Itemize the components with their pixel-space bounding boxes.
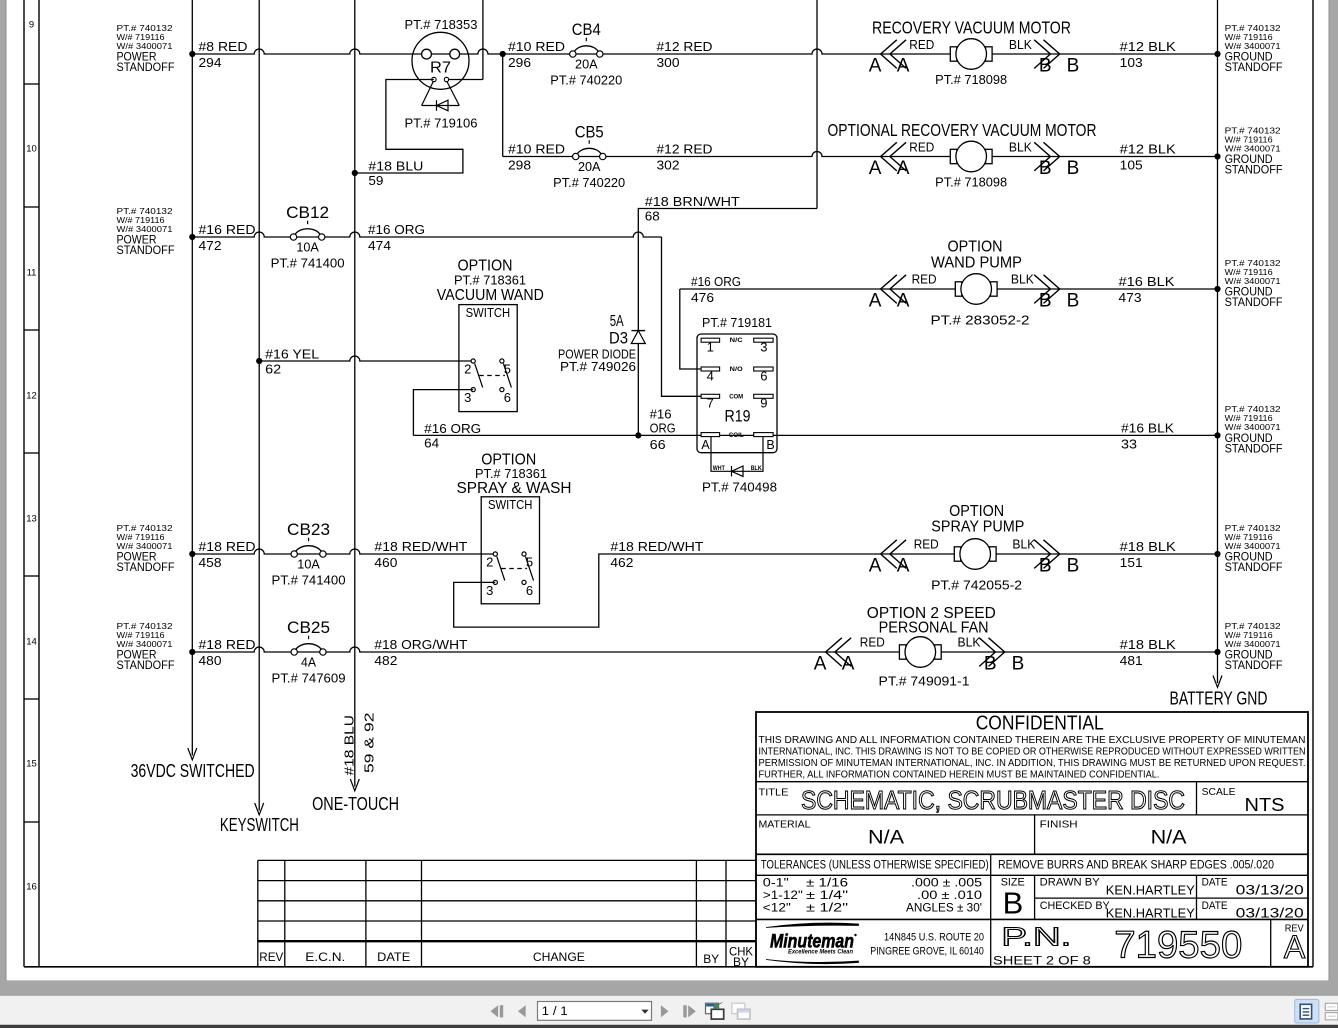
svg-text:N/A: N/A — [868, 828, 904, 849]
connector A-A personal fan — [814, 638, 855, 675]
svg-text:OPTION: OPTION — [949, 503, 1004, 520]
label: #12 BLK 105 — [1120, 142, 1176, 173]
junction: bus1 row13 — [189, 551, 195, 557]
svg-text:PT.# 740498: PT.# 740498 — [702, 481, 777, 495]
wire: keyswitch bus (vertical) — [255, 0, 264, 815]
junction: keyswitch bus / #16 YEL — [256, 358, 262, 364]
svg-text:BY: BY — [733, 955, 749, 969]
svg-text:STANDOFF: STANDOFF — [117, 243, 175, 257]
svg-text:± 1/16: ± 1/16 — [806, 878, 848, 890]
svg-text:#16 ORG: #16 ORG — [691, 274, 741, 289]
junction: D3 / row12 — [635, 432, 641, 438]
connector R7 PT.# 718353 — [405, 18, 478, 89]
node: 36VDC SWITCHED — [131, 760, 255, 781]
svg-text:473: 473 — [1119, 290, 1142, 305]
svg-text:BY: BY — [703, 952, 719, 966]
wire: #18 BRN/WHT feed (vertical at x=817) — [816, 0, 818, 209]
wire: one-touch bus (vertical) — [350, 0, 359, 791]
label: BLK — [1012, 538, 1036, 552]
svg-text:1: 1 — [707, 340, 714, 355]
ground standoff label row12 — [1225, 405, 1283, 455]
label: #12 RED 302 — [657, 142, 713, 173]
label: RED — [909, 140, 934, 154]
svg-text:W/# 719116: W/# 719116 — [1225, 533, 1274, 542]
label: #16 ORG 66 (stacked) — [650, 407, 676, 452]
svg-text:RED: RED — [914, 538, 939, 552]
svg-text:D3: D3 — [609, 330, 628, 348]
svg-text:PT.# 741400: PT.# 741400 — [271, 257, 345, 271]
label: #16 RED 472 — [199, 222, 256, 253]
svg-text:B: B — [1067, 158, 1080, 179]
connector A-A spray pump — [869, 540, 910, 577]
svg-text:STANDOFF: STANDOFF — [1225, 560, 1283, 574]
wire: #18 BRN/WHT 68 — [638, 209, 817, 331]
svg-text:PT.# 719106: PT.# 719106 — [405, 117, 478, 131]
svg-text:BATTERY GND: BATTERY GND — [1170, 688, 1268, 709]
svg-text:CB4: CB4 — [572, 21, 601, 39]
svg-text:MATERIAL: MATERIAL — [759, 819, 811, 831]
svg-text:KEN.HARTLEY: KEN.HARTLEY — [1106, 906, 1195, 921]
svg-text:COM: COM — [729, 393, 743, 400]
svg-text:68: 68 — [645, 209, 660, 224]
svg-text:P.N.: P.N. — [1001, 922, 1071, 952]
svg-text:#16 ORG: #16 ORG — [424, 421, 481, 436]
svg-text:6: 6 — [760, 368, 767, 383]
label: SIZE B — [1001, 877, 1025, 921]
svg-text:NTS: NTS — [1245, 795, 1285, 815]
svg-text:± 1/4": ± 1/4" — [806, 890, 848, 902]
label: MATERIAL / FINISH — [759, 819, 1187, 849]
junction: row9 / row10 feed — [500, 51, 506, 57]
wire: row13 #18 RED to switch pin2 — [192, 549, 495, 554]
svg-text:105: 105 — [1120, 158, 1143, 173]
svg-text:458: 458 — [199, 555, 222, 570]
svg-text:3: 3 — [760, 340, 767, 355]
svg-text:ORG: ORG — [650, 420, 676, 435]
svg-text:4: 4 — [707, 368, 714, 383]
svg-text:W/# 719116: W/# 719116 — [117, 533, 166, 542]
svg-text:PT.# 742055-2: PT.# 742055-2 — [931, 579, 1022, 593]
svg-text:N/O: N/O — [730, 366, 743, 373]
svg-text:OPTION: OPTION — [948, 239, 1003, 256]
svg-text:64: 64 — [424, 436, 439, 451]
svg-text:6: 6 — [504, 390, 511, 405]
svg-text:10A: 10A — [297, 557, 320, 572]
svg-text:#18 BLK: #18 BLK — [1120, 539, 1176, 554]
svg-text:W/# 719116: W/# 719116 — [117, 631, 166, 640]
svg-text:5: 5 — [526, 555, 533, 570]
svg-text:302: 302 — [657, 158, 680, 173]
svg-text:PT.# 747609: PT.# 747609 — [272, 672, 346, 686]
svg-text:3: 3 — [486, 583, 493, 598]
svg-text:20A: 20A — [578, 159, 601, 174]
connector B-B row10 — [1034, 142, 1079, 179]
svg-text:151: 151 — [1120, 555, 1143, 570]
label: RED — [912, 273, 937, 287]
svg-text:SCALE: SCALE — [1202, 786, 1236, 798]
svg-text:CHANGE: CHANGE — [533, 950, 585, 964]
svg-text:CB5: CB5 — [575, 124, 604, 142]
label: #10 RED 296 — [508, 39, 565, 70]
svg-text:14: 14 — [26, 637, 37, 648]
wire: spray switch pin3 detour to #18 RED/WHT 462 — [454, 554, 1218, 627]
svg-text:6: 6 — [526, 583, 533, 598]
svg-text:B: B — [1039, 290, 1052, 311]
label: OPTION PT.# 718361 VACUUM WAND — [437, 258, 544, 305]
power standoff label row13 left — [117, 524, 175, 574]
wire: #18 BLU 59 (R7 to one-touch bus) — [355, 80, 463, 174]
svg-text:RED: RED — [909, 38, 934, 52]
label: #18 BLU 59 — [368, 159, 423, 189]
label: TITLE SCHEMATIC, SCRUBMASTER DISC — [759, 786, 1285, 815]
svg-text:03/13/20: 03/13/20 — [1236, 905, 1304, 921]
label: BLK — [1009, 140, 1033, 154]
svg-text:± 1/2": ± 1/2" — [806, 903, 848, 915]
svg-text:R19: R19 — [725, 407, 751, 426]
svg-text:W/# 719116: W/# 719116 — [117, 33, 166, 42]
svg-text:W/# 719116: W/# 719116 — [1225, 268, 1274, 277]
wire: row9 to row10 feed (vertical at x=503) — [502, 54, 504, 157]
svg-text:W/# 719116: W/# 719116 — [1225, 33, 1274, 42]
label: #18 BLU 59 & 92 (vertical) — [342, 713, 377, 776]
svg-text:BLK: BLK — [1009, 38, 1033, 52]
svg-text:W/# 719116: W/# 719116 — [1225, 631, 1274, 640]
svg-text:PT.# 740132: PT.# 740132 — [1225, 24, 1282, 33]
svg-text:#16 RED: #16 RED — [199, 222, 256, 237]
svg-text:#12 RED: #12 RED — [657, 39, 713, 54]
svg-text:A: A — [897, 158, 910, 179]
switch: spray & wash switch — [481, 497, 539, 604]
svg-text:103: 103 — [1120, 55, 1143, 70]
svg-text:PT.# 718361: PT.# 718361 — [454, 273, 526, 287]
svg-text:0-1": 0-1" — [763, 878, 789, 890]
junction: bus1 row14 — [189, 649, 195, 655]
junction: row12 ground bus — [1214, 432, 1220, 438]
label: BLK — [958, 636, 982, 650]
svg-text:PT.# 718098: PT.# 718098 — [935, 176, 1007, 190]
svg-text:CONFIDENTIAL: CONFIDENTIAL — [976, 713, 1104, 735]
wire: R19 pin4 feed from wand pump line — [680, 289, 702, 369]
svg-text:SCHEMATIC, SCRUBMASTER DISC: SCHEMATIC, SCRUBMASTER DISC — [801, 787, 1185, 815]
label: RED — [860, 636, 885, 650]
svg-text:.000 ± .005: .000 ± .005 — [911, 878, 982, 890]
label: #16 BLK 33 — [1121, 420, 1174, 451]
svg-text:PT.# 740220: PT.# 740220 — [550, 74, 622, 88]
svg-text:480: 480 — [199, 653, 222, 668]
svg-text:298: 298 — [508, 158, 531, 173]
svg-text:PT.# 718353: PT.# 718353 — [405, 18, 478, 32]
svg-text:36VDC SWITCHED: 36VDC SWITCHED — [131, 760, 255, 781]
wire: row11 #16 RED/ORG to R19 pin7 — [192, 232, 701, 396]
circuit breaker CB25 4A PT.# 747609 — [272, 619, 346, 686]
svg-text:SWITCH: SWITCH — [466, 306, 511, 320]
label: OPTIONAL RECOVERY VACUUM MOTOR — [828, 120, 1097, 140]
svg-text:#12 RED: #12 RED — [657, 142, 713, 157]
svg-text:B: B — [1012, 653, 1025, 674]
svg-text:11: 11 — [27, 268, 37, 279]
junction: bus1 row11 — [189, 234, 195, 240]
svg-text:719550: 719550 — [1114, 925, 1242, 967]
svg-text:A: A — [869, 290, 882, 311]
svg-text:RED: RED — [860, 636, 885, 650]
connector B-B wand pump — [1034, 275, 1079, 312]
svg-text:B: B — [1067, 55, 1080, 76]
label: #16 ORG 476 — [691, 274, 741, 305]
svg-text:B: B — [766, 438, 774, 452]
svg-text:KEYSWITCH: KEYSWITCH — [220, 814, 299, 835]
svg-text:B: B — [1039, 555, 1052, 576]
circuit breaker CB12 10A PT.# 741400 — [271, 204, 345, 271]
ground standoff label row10 — [1225, 126, 1283, 176]
svg-text:E.C.N.: E.C.N. — [305, 950, 345, 964]
svg-text:#18 BRN/WHT: #18 BRN/WHT — [645, 194, 740, 209]
junction: row9 ground bus — [1214, 51, 1220, 57]
svg-text:N/A: N/A — [1151, 828, 1187, 849]
svg-text:OPTION: OPTION — [481, 452, 536, 469]
label: RECOVERY VACUUM MOTOR — [872, 18, 1071, 38]
svg-text:.00 ± .010: .00 ± .010 — [917, 890, 982, 902]
connector B-B spray pump — [1034, 540, 1079, 577]
svg-text:VACUUM WAND: VACUUM WAND — [437, 287, 544, 304]
svg-text:RECOVERY VACUUM MOTOR: RECOVERY VACUUM MOTOR — [872, 18, 1071, 38]
wire: battery ground bus (right vertical) — [1213, 0, 1222, 687]
svg-text:7: 7 — [707, 396, 714, 411]
svg-text:<12": <12" — [763, 903, 791, 915]
diode PT.# 740498 (R19 coil suppression) — [702, 437, 777, 495]
svg-text:DATE: DATE — [1202, 900, 1228, 912]
svg-text:472: 472 — [199, 238, 222, 253]
svg-text:12: 12 — [26, 391, 37, 402]
svg-text:#18 RED: #18 RED — [199, 637, 256, 652]
ground standoff label wand pump — [1225, 259, 1283, 309]
circuit breaker CB4 20A PT.# 740220 — [550, 21, 622, 88]
svg-text:BLK: BLK — [1012, 538, 1036, 552]
svg-text:PT.# 283052-2: PT.# 283052-2 — [931, 314, 1030, 328]
svg-text:66: 66 — [650, 437, 666, 452]
svg-text:FURTHER, ALL INFORMATION CO: FURTHER, ALL INFORMATION CONTAINED HEREI… — [759, 769, 1160, 781]
svg-text:482: 482 — [374, 653, 397, 668]
svg-text:4A: 4A — [301, 655, 316, 670]
label: #18 BRN/WHT 68 — [645, 194, 740, 224]
svg-text:#18 BLK: #18 BLK — [1120, 637, 1176, 652]
svg-text:296: 296 — [508, 55, 531, 70]
svg-text:10A: 10A — [296, 240, 319, 255]
connector A-A row10 — [869, 142, 910, 179]
wire: row14 #18 RED / ORG/WHT — [192, 647, 1217, 652]
svg-text:62: 62 — [265, 362, 281, 377]
svg-text:N/C: N/C — [730, 337, 743, 344]
power standoff label row9 left — [117, 24, 175, 74]
svg-text:5A: 5A — [610, 313, 624, 330]
svg-text:A: A — [842, 653, 855, 674]
svg-text:476: 476 — [691, 290, 714, 305]
svg-text:PT.# 740132: PT.# 740132 — [1225, 126, 1282, 135]
svg-text:#12 BLK: #12 BLK — [1120, 142, 1176, 157]
svg-text:SPRAY PUMP: SPRAY PUMP — [931, 519, 1024, 536]
label: DRAWN BY KEN.HARTLEY DATE 03/13/20 — [1040, 877, 1304, 898]
junction: wand pump ground bus — [1214, 286, 1220, 292]
svg-text:A: A — [897, 555, 910, 576]
svg-text:TITLE: TITLE — [759, 787, 789, 799]
connector A-A wand pump — [869, 275, 910, 312]
svg-text:OPTION: OPTION — [458, 258, 513, 275]
svg-text:SHEET 2 OF 8: SHEET 2 OF 8 — [993, 956, 1091, 968]
svg-text:13: 13 — [26, 514, 37, 525]
svg-text:INTERNATIONAL, INC. THIS DR: INTERNATIONAL, INC. THIS DRAWING IS NOT … — [759, 746, 1306, 758]
connector A-A row9 — [869, 40, 910, 77]
svg-text:ONE-TOUCH: ONE-TOUCH — [312, 793, 399, 814]
label: #16 ORG 64 — [424, 421, 481, 451]
svg-text:THIS DRAWING AND ALL INFOR: THIS DRAWING AND ALL INFORMATION CONTAIN… — [759, 734, 1306, 746]
label: RED — [909, 38, 934, 52]
label: #18 RED/WHT 462 — [610, 539, 703, 570]
junction: row10 ground bus — [1214, 153, 1220, 159]
label: CHECKED BY KEN.HARTLEY DATE 03/13/20 — [1040, 900, 1304, 921]
svg-text:STANDOFF: STANDOFF — [1225, 60, 1283, 74]
svg-text:PINGREE GROVE, IL 60140: PINGREE GROVE, IL 60140 — [870, 945, 984, 957]
svg-text:A: A — [869, 55, 882, 76]
svg-text:PT.# 749091-1: PT.# 749091-1 — [879, 675, 970, 689]
svg-text:10: 10 — [26, 144, 37, 155]
label: #18 BLK 481 — [1120, 637, 1176, 668]
svg-text:RED: RED — [909, 140, 934, 154]
ground standoff label row9 — [1225, 24, 1283, 74]
wire: row12 #16 ORG 66 / coil line — [413, 434, 1217, 436]
svg-text:#16 YEL: #16 YEL — [265, 347, 319, 362]
junction: row14 ground bus — [1214, 649, 1220, 655]
svg-text:#18 RED/WHT: #18 RED/WHT — [374, 539, 467, 554]
svg-text:CB25: CB25 — [287, 619, 330, 637]
svg-text:A: A — [1284, 929, 1306, 965]
label: #18 RED/WHT 460 — [374, 539, 467, 570]
ground standoff label row13 — [1225, 524, 1283, 574]
svg-text:#18 ORG/WHT: #18 ORG/WHT — [374, 637, 467, 652]
switch: vacuum wand switch — [459, 305, 517, 412]
svg-text:SWITCH: SWITCH — [488, 498, 533, 512]
svg-text:PT.# 740132: PT.# 740132 — [117, 24, 174, 33]
svg-text:SPRAY & WASH: SPRAY & WASH — [457, 480, 572, 497]
motor: optional recovery vacuum motor PT.# 718098 — [935, 141, 1007, 189]
label: tolerances — [761, 859, 1274, 914]
wire: wand switch pin3 to row12 #16 ORG 64 — [413, 390, 473, 436]
label: OPTION PT.# 718361 SPRAY & WASH — [457, 452, 572, 497]
diode PT.# 719106 (across R7 pins) — [405, 82, 478, 131]
svg-text:REV: REV — [259, 950, 283, 964]
svg-text:STANDOFF: STANDOFF — [1225, 441, 1283, 455]
wire: wand pump row #16 ORG 476 — [680, 288, 1218, 290]
svg-text:59 & 92: 59 & 92 — [362, 713, 377, 774]
label: #18 RED 458 — [199, 539, 256, 570]
svg-text:PT.# 749026: PT.# 749026 — [560, 360, 636, 374]
svg-text:REMOVE BURRS AND BREAK SHA: REMOVE BURRS AND BREAK SHARP EDGES .005/… — [998, 859, 1274, 871]
svg-text:PERSONAL FAN: PERSONAL FAN — [879, 620, 989, 637]
svg-text:DRAWN BY: DRAWN BY — [1040, 877, 1101, 889]
svg-text:R7: R7 — [430, 60, 451, 77]
svg-text:STANDOFF: STANDOFF — [117, 560, 175, 574]
svg-text:RED: RED — [912, 273, 937, 287]
svg-text:300: 300 — [657, 55, 680, 70]
svg-text:#18 RED/WHT: #18 RED/WHT — [610, 539, 703, 554]
label: BLK — [1011, 273, 1035, 287]
svg-text:59: 59 — [368, 173, 383, 188]
label: #12 BLK 103 — [1120, 39, 1176, 70]
svg-text:PERMISSION OF MINUTEMAN INT: PERMISSION OF MINUTEMAN INTERNATIONAL, I… — [759, 757, 1306, 769]
svg-text:DATE: DATE — [377, 950, 410, 964]
motor: spray pump PT.# 742055-2 — [931, 539, 1022, 593]
label: #12 RED 300 — [657, 39, 713, 70]
svg-text:20A: 20A — [575, 57, 598, 72]
svg-text:PT.# 740132: PT.# 740132 — [1225, 524, 1282, 533]
svg-text:STANDOFF: STANDOFF — [1225, 163, 1283, 177]
label: #18 RED 480 — [199, 637, 256, 668]
svg-text:#10 RED: #10 RED — [508, 142, 565, 157]
svg-text:16: 16 — [26, 882, 37, 893]
label: #10 RED 298 — [508, 142, 565, 173]
junction: one-touch bus / #18 BLU — [352, 170, 358, 176]
svg-text:PT.# 740132: PT.# 740132 — [1225, 405, 1282, 414]
label: RED — [914, 538, 939, 552]
motor: 2 speed personal fan PT.# 749091-1 — [879, 637, 970, 689]
svg-text:3: 3 — [464, 390, 471, 405]
svg-text:DATE: DATE — [1202, 877, 1228, 889]
connector B-B row9 — [1034, 40, 1079, 77]
svg-text:W/# 719116: W/# 719116 — [117, 216, 166, 225]
wire: row10 #10 RED 298 — [503, 152, 1218, 157]
svg-text:#8 RED: #8 RED — [199, 39, 248, 54]
svg-text:A: A — [869, 555, 882, 576]
svg-text:>1-12": >1-12" — [763, 890, 803, 902]
svg-text:B: B — [984, 653, 997, 674]
svg-text:A: A — [814, 653, 827, 674]
svg-text:9: 9 — [760, 396, 767, 411]
svg-text:A: A — [701, 438, 710, 452]
svg-text:A: A — [897, 290, 910, 311]
svg-text:B: B — [1039, 55, 1052, 76]
node: ONE-TOUCH — [312, 793, 399, 814]
revision table — [258, 860, 756, 969]
relay R19 PT.# 719181 — [697, 316, 777, 453]
label: address — [870, 932, 984, 958]
svg-text:A: A — [897, 55, 910, 76]
circuit breaker CB5 20A PT.# 740220 — [553, 124, 625, 191]
svg-text:OPTIONAL RECOVERY VACUUM MO: OPTIONAL RECOVERY VACUUM MOTOR — [828, 120, 1097, 140]
node: KEYSWITCH — [220, 814, 299, 835]
svg-text:2: 2 — [486, 555, 493, 570]
svg-text:CB12: CB12 — [286, 204, 329, 222]
svg-text:PT.# 740220: PT.# 740220 — [553, 176, 625, 190]
svg-text:#18 BLU: #18 BLU — [368, 159, 423, 174]
svg-text:B: B — [1003, 886, 1024, 921]
svg-text:STANDOFF: STANDOFF — [117, 658, 175, 672]
svg-text:03/13/20: 03/13/20 — [1236, 882, 1304, 898]
motor: recovery vacuum motor PT.# 718098 — [935, 39, 1007, 87]
label: #16 ORG 474 — [368, 222, 425, 253]
label: #18 ORG/WHT 482 — [374, 637, 467, 668]
svg-text:CB23: CB23 — [287, 521, 330, 539]
svg-text:STANDOFF: STANDOFF — [1225, 295, 1283, 309]
ground standoff label row14 — [1225, 622, 1283, 672]
wire: #16 YEL 62 — [259, 356, 473, 361]
svg-text:474: 474 — [368, 238, 391, 253]
svg-text:B: B — [1039, 158, 1052, 179]
svg-text:STANDOFF: STANDOFF — [1225, 658, 1283, 672]
svg-text:B: B — [1067, 290, 1080, 311]
label: OPTION 2 SPEED PERSONAL FAN — [867, 605, 996, 637]
svg-text:A: A — [869, 158, 882, 179]
svg-text:W/# 719116: W/# 719116 — [1225, 414, 1274, 423]
circuit breaker CB23 10A PT.# 741400 — [272, 521, 346, 588]
label: #16 YEL 62 — [265, 347, 319, 377]
